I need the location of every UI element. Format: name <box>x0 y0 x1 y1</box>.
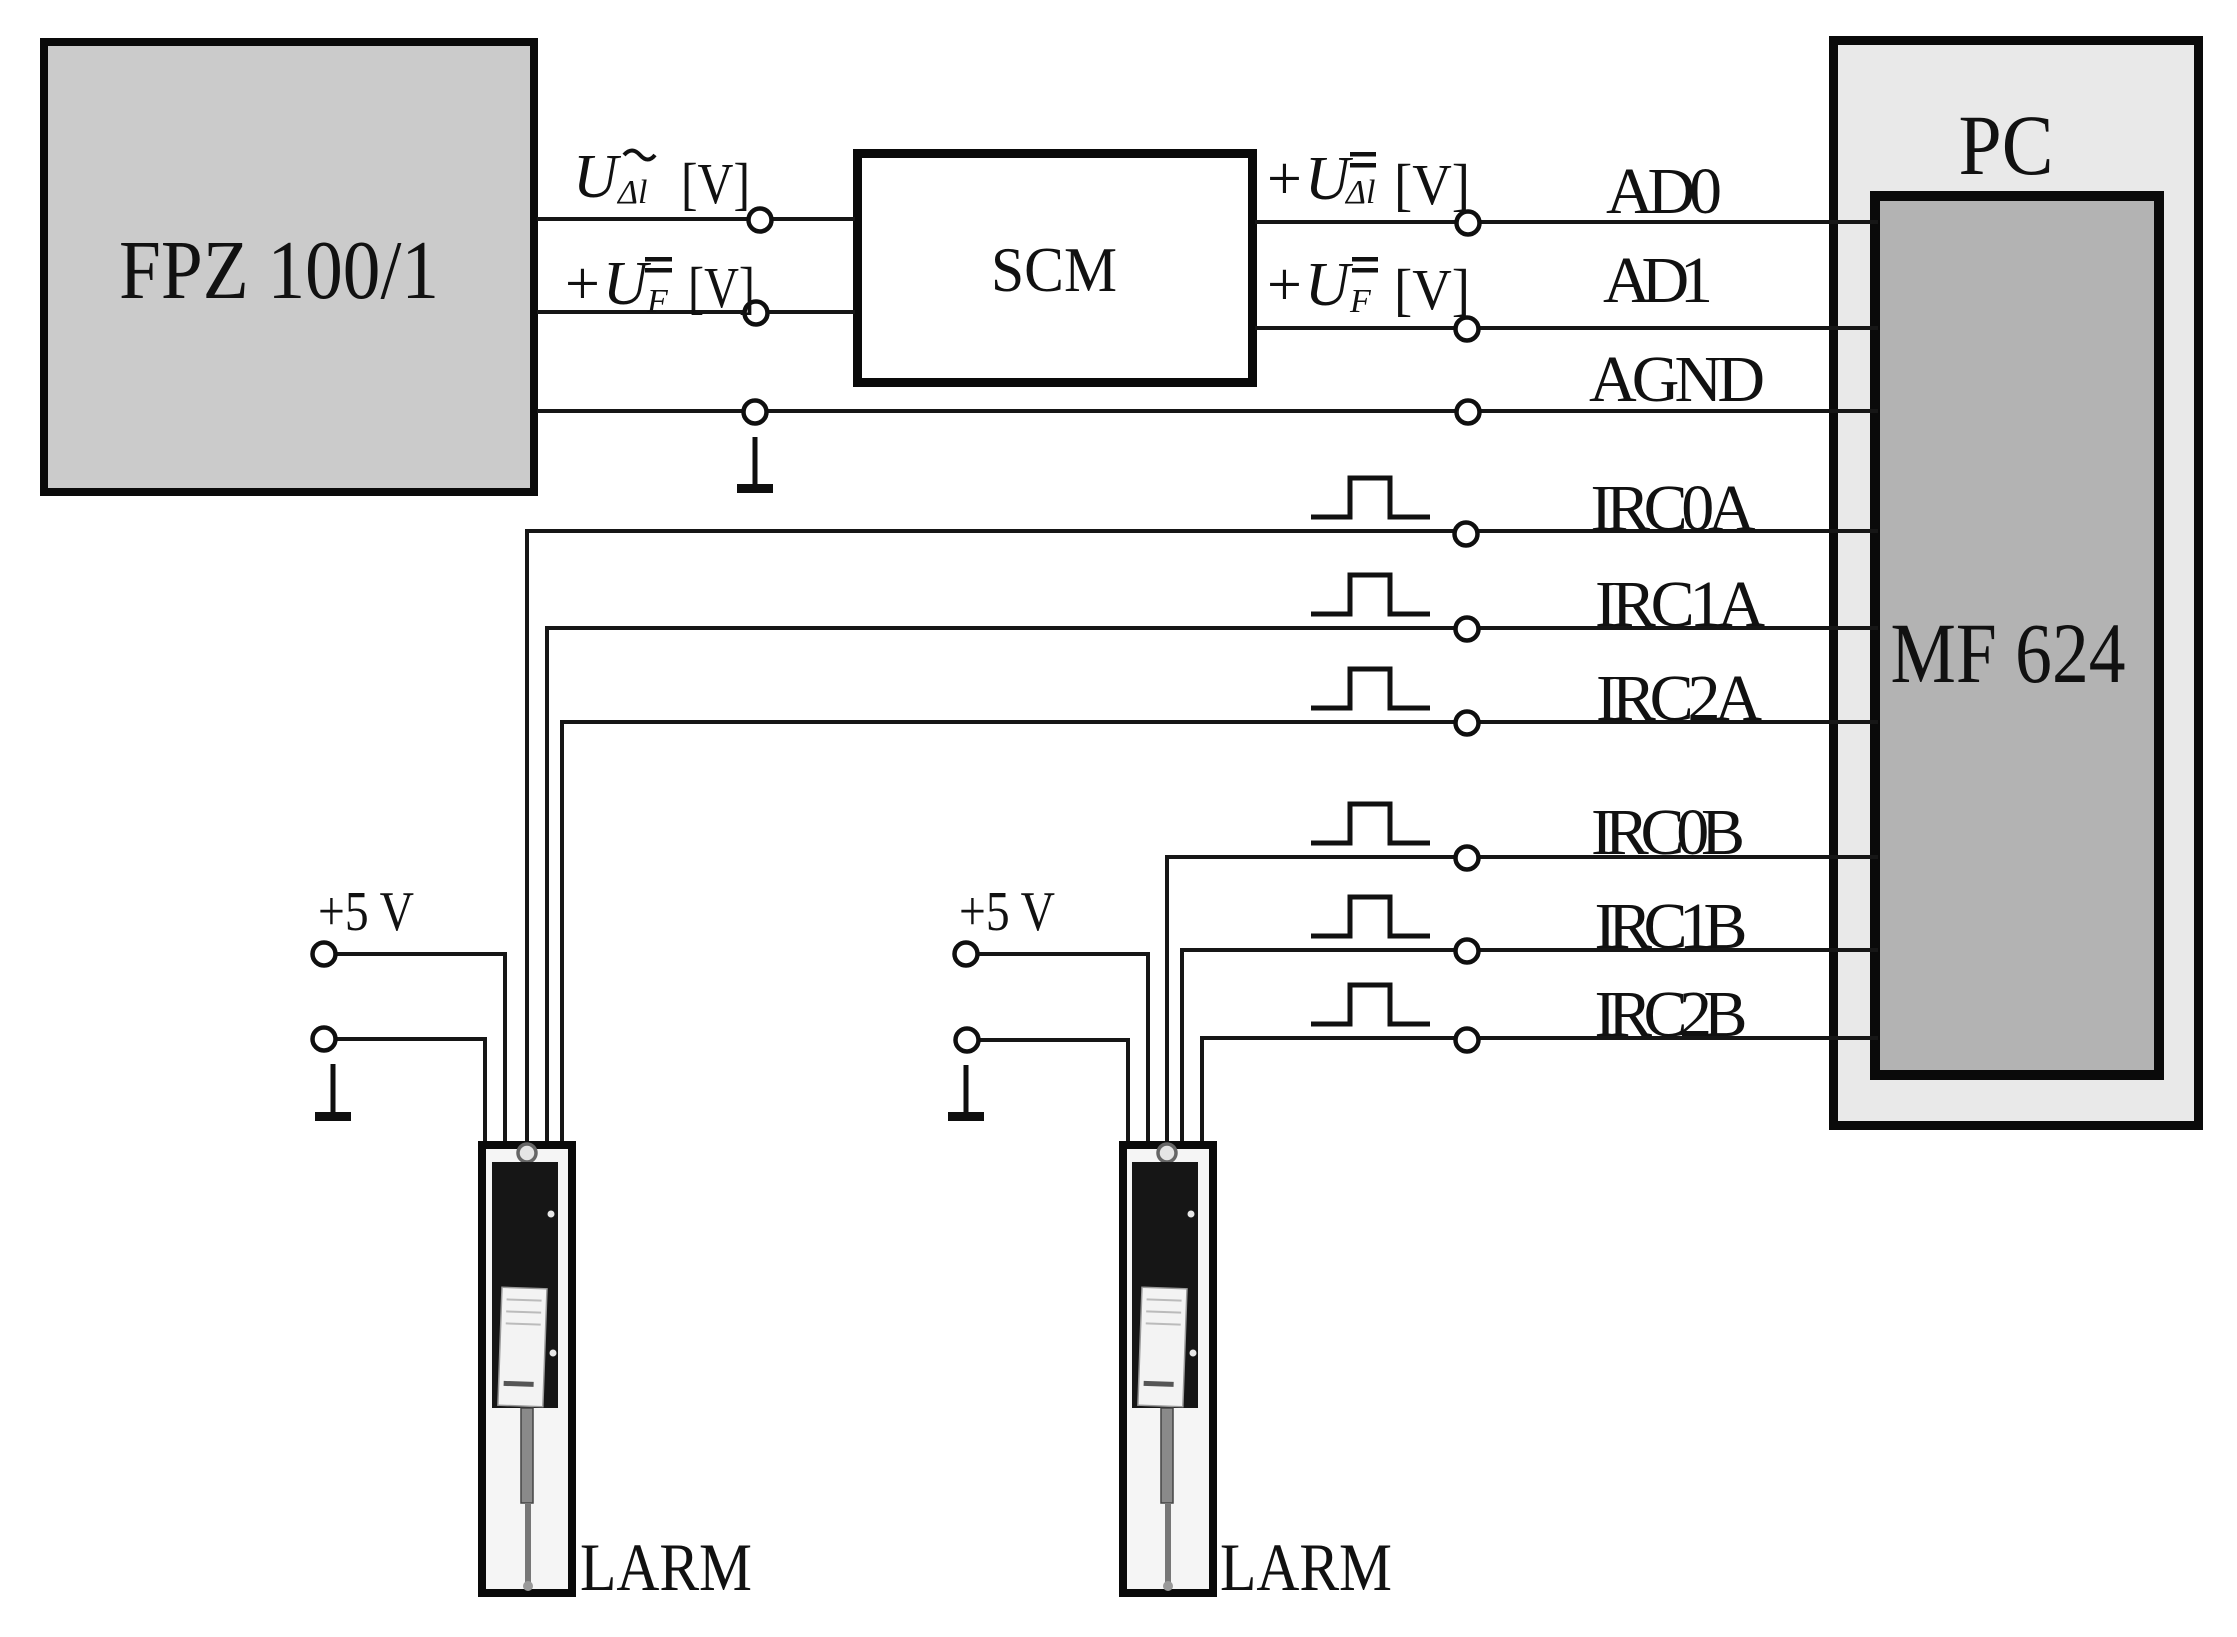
svg-text:[V]: [V] <box>1394 257 1470 322</box>
svg-text:IRC1A: IRC1A <box>1595 568 1765 641</box>
svg-text:+5 V: +5 V <box>959 881 1055 943</box>
svg-text:IRC0B: IRC0B <box>1591 796 1745 869</box>
svg-text:+5 V: +5 V <box>318 881 414 943</box>
svg-text:[V]: [V] <box>681 151 750 216</box>
svg-text:FPZ 100/1: FPZ 100/1 <box>119 224 439 317</box>
svg-text:AD1: AD1 <box>1603 244 1713 317</box>
svg-text:[V]: [V] <box>1394 152 1470 217</box>
svg-text:Δl: Δl <box>1344 174 1375 211</box>
svg-text:AGND: AGND <box>1589 343 1765 416</box>
svg-text:AD0: AD0 <box>1606 155 1722 228</box>
svg-text:+U: +U <box>1263 251 1354 319</box>
svg-text:LARM: LARM <box>1220 1529 1392 1605</box>
svg-text:U: U <box>573 143 622 211</box>
svg-text:IRC2A: IRC2A <box>1596 662 1762 735</box>
svg-text:PC: PC <box>1959 97 2054 193</box>
svg-text:[V]: [V] <box>688 255 755 320</box>
svg-text:IRC1B: IRC1B <box>1595 890 1748 963</box>
svg-text:F: F <box>1349 283 1372 320</box>
svg-text:+U: +U <box>561 250 652 318</box>
svg-text:IRC2B: IRC2B <box>1595 978 1748 1051</box>
svg-text:SCM: SCM <box>991 234 1117 305</box>
svg-text:+U: +U <box>1263 145 1354 213</box>
svg-text:MF 624: MF 624 <box>1891 605 2126 701</box>
svg-text:F: F <box>646 283 669 320</box>
svg-text:Δl: Δl <box>616 174 647 211</box>
svg-text:LARM: LARM <box>580 1529 752 1605</box>
svg-text:IRC0A: IRC0A <box>1591 472 1756 545</box>
